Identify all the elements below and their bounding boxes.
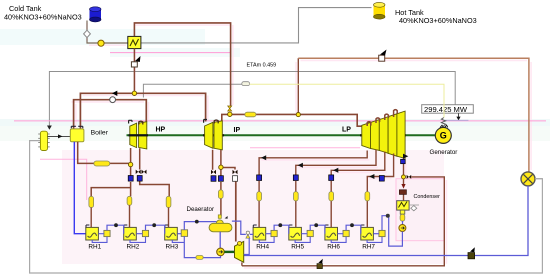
node deaerator inlet dot (195, 220, 199, 224)
generator G1 (435, 125, 451, 143)
svg-text:Condenser: Condenser (414, 194, 441, 200)
wire economizer to boiler (48, 134, 71, 138)
pump P1 (salt pump) (98, 40, 104, 46)
turbine FPT (feed pump turbine) (235, 241, 244, 262)
grey sensor wire economizer-top to MW box (49, 72, 455, 127)
magenta accent left group (40, 159, 87, 200)
superheater HX1 (128, 36, 141, 48)
node condenser junction (402, 175, 406, 179)
feed box condenser inlet (399, 190, 406, 195)
shaft wire (127, 134, 444, 136)
wire HX bottom to steam node (133, 49, 135, 94)
svg-text:40%KNO3+60%NaNO3: 40%KNO3+60%NaNO3 (4, 12, 82, 21)
magenta accent line mid (14, 120, 546, 122)
port blue square RH3 line (137, 176, 142, 182)
wire condenser steam side to bottom main (242, 177, 444, 266)
grey salt wire HX to hot tank (141, 8, 372, 43)
svg-text:G: G (440, 131, 447, 141)
pump P3 (feedwater pump) (217, 248, 225, 256)
svg-text:HP: HP (156, 127, 166, 134)
feed box bottom main (317, 259, 323, 269)
port blue square IP-left (211, 176, 216, 182)
wire LP exhaust to condenser (404, 157, 406, 201)
pipe L3 under condenser (400, 214, 405, 221)
grey cooling loop wire (economizer to frame to fan) (30, 141, 543, 273)
valve square RH7 outlet (379, 230, 385, 236)
boiler B1 (70, 129, 84, 142)
condenser CND (397, 201, 409, 214)
wire MW box tap with arrow (444, 113, 468, 120)
node RH7 outlet dot (386, 214, 390, 218)
svg-text:RH2: RH2 (127, 244, 140, 251)
pipe L1 (lumped pipe on crossover) (245, 112, 256, 117)
port blue square IP-mid (218, 176, 223, 182)
economizer EC1 (38, 131, 50, 150)
arrow LP exhaust (403, 154, 408, 159)
port blue square RH2 line (128, 176, 133, 182)
deaerator drum (209, 215, 232, 232)
wire fan to bottom blue main (237, 186, 528, 256)
valve mini RH4 inlet (246, 231, 250, 238)
wire RH3 to outlet valve (177, 233, 181, 235)
node steam junction C (132, 91, 136, 95)
svg-text:Boiler: Boiler (91, 130, 109, 137)
svg-text:299.425 MW: 299.425 MW (424, 105, 468, 114)
wire steam line A boiler to IP (80, 93, 205, 129)
flange marks boiler top (71, 126, 83, 128)
valve V4 (white square under HX) (131, 56, 140, 67)
wire condensate pump to RH7 riser (382, 216, 402, 246)
wire RH1 RH2 RH3 feeders lower (91, 205, 168, 227)
valve bowtie IP-2 (233, 170, 238, 174)
wire FPT exhaust to RH4 valve (232, 221, 253, 254)
pipe L4 deaerator feed (218, 190, 223, 199)
LP extraction hooks (367, 110, 397, 126)
port blue square e4 (257, 175, 262, 181)
node crossover junction A (228, 112, 232, 116)
HP turbine (129, 120, 147, 149)
wire riser to cooling line (297, 58, 299, 114)
wire IP exhaust group (213, 150, 235, 216)
valve bowtie IP-1 (211, 170, 216, 174)
wire fan right stub (535, 178, 542, 180)
wire cooling-water top line to fan (298, 58, 529, 171)
wire cold-tank to pump to HX (87, 21, 128, 44)
pipe L5 RH4 feed (257, 192, 262, 201)
wire HX-top loop to crossover valve (134, 23, 230, 106)
hot tank T2 (374, 2, 386, 19)
pipe L6 RH5 feed (294, 192, 299, 201)
arrow e4 (261, 155, 266, 160)
port blue square e6 (329, 175, 334, 181)
svg-text:RH5: RH5 (291, 244, 304, 251)
pipe L2 (lumped pipe on boiler drain) (94, 161, 110, 166)
wire LP extraction e5 to RH5 (296, 150, 376, 228)
pipe L9 RH1 feed (89, 196, 94, 207)
svg-text:IP: IP (234, 127, 241, 134)
port blue square e5 (293, 175, 298, 181)
svg-text:Generator: Generator (430, 149, 458, 156)
pipe halos (pale chroma fringes) (71, 23, 531, 268)
sensor stub condenser right (409, 205, 419, 211)
wire RH3 valve riser to deaerator dome (184, 222, 216, 230)
cold tank T1 (90, 7, 102, 22)
wire deaerator to FW pump (219, 232, 221, 249)
cooling fan FAN1 (521, 172, 535, 186)
node crossover junction B (296, 113, 300, 117)
pipe L8 RH7 feed (365, 192, 370, 201)
arrow e6 (333, 168, 338, 173)
arrow on line A (112, 91, 117, 96)
wire FW pump suction loop (184, 236, 220, 257)
valve bowtie HP-1 (136, 170, 141, 174)
sensor box on blue main (468, 247, 475, 259)
wire LP extraction e6 to RH6 (331, 152, 385, 228)
sensor S1 (white circle on line B) (110, 97, 116, 103)
sensor capsule ETA (242, 82, 250, 86)
wire crossover IP to LP (222, 114, 362, 126)
pump P2 (condensate pump) (399, 221, 406, 232)
wire RH3 drain loop (172, 240, 184, 242)
wire boiler drain to HP-exhaust node (78, 142, 129, 164)
wire LP extraction e4 to RH4 (259, 151, 367, 228)
resistor damper zigzag above generator (441, 118, 445, 128)
valve V3 (small yellow on crossover riser) (228, 106, 232, 111)
valve V5 (bowtie right of node) (407, 175, 412, 179)
arrow e5 (298, 163, 303, 168)
wire boiler feedwater down (bright blue) (74, 142, 86, 234)
grey sensor wire HP-inlet to ETA capsule (143, 84, 241, 97)
svg-text:RH7: RH7 (362, 244, 375, 251)
wire RH7 to outlet valve (373, 233, 379, 235)
svg-text:RH3: RH3 (166, 244, 179, 251)
wire LP extraction e7 to RH7 (367, 154, 393, 228)
pipe L10 RH2 feed (127, 196, 132, 205)
svg-text:ETAm 0.459: ETAm 0.459 (247, 63, 277, 69)
pipe L12 on suction loop (196, 256, 203, 260)
valve V2 (white square on cooling line) (379, 50, 387, 62)
display MW box (422, 105, 474, 114)
svg-text:Deaerator: Deaerator (187, 206, 215, 213)
node HP exhaust junction (128, 162, 132, 166)
wire HP exhaust group (91, 148, 169, 196)
wire frame-bottom brown stub (236, 255, 238, 257)
svg-text:RH6: RH6 (327, 244, 340, 251)
port blue square e7 (379, 176, 384, 182)
svg-text:LP: LP (342, 127, 351, 134)
valve V1 (diamond) (84, 30, 91, 37)
port blue square LP exhaust (401, 159, 406, 163)
node IP exhaust junction (219, 165, 223, 169)
wire ETA yellow to generator (250, 84, 444, 117)
arrow into economizer top (47, 126, 52, 130)
port white square FPT feed (233, 176, 238, 182)
arrow into condenser (401, 184, 405, 189)
magenta condenser box (396, 179, 444, 241)
valve square RH3 outlet (deaerator) (181, 230, 187, 237)
arrow e7 (369, 174, 374, 179)
svg-text:40%KNO3+60%NaNO3: 40%KNO3+60%NaNO3 (399, 16, 477, 25)
LP turbine (362, 111, 405, 158)
magenta accent line top (110, 52, 231, 54)
IP turbine (204, 120, 223, 150)
svg-text:RH4: RH4 (256, 244, 269, 251)
valve bowtie HP-2 (142, 170, 147, 174)
svg-text:RH1: RH1 (88, 244, 101, 251)
pipe L7 RH6 feed (329, 192, 334, 201)
magenta accent line LP (250, 147, 360, 149)
wire FPT steam feed (235, 182, 237, 242)
wire steam line B boiler to HP (74, 100, 147, 129)
pipe L11 RH3 feed (166, 196, 171, 207)
shaft FW pump to FPT (224, 251, 234, 253)
